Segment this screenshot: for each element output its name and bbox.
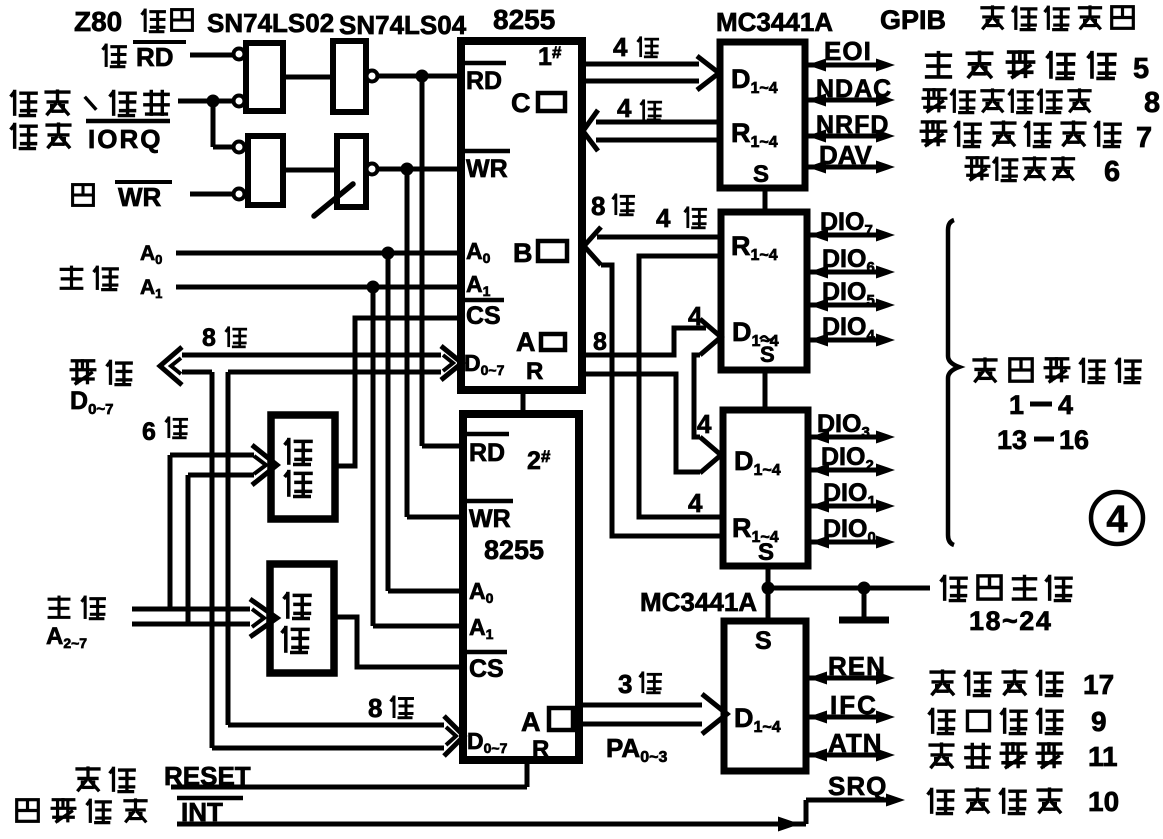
wire INT from Z80 [177,822,806,827]
note data valid 6 [966,156,990,159]
gate inverter G2 (SN74LS04) [333,41,366,112]
svg-text:18~24: 18~24 [969,606,1052,636]
net DIO2 [808,468,880,473]
wire RD down to 8255#2 [420,76,425,446]
node ground junction left [762,582,775,595]
note data not ready 7 [921,120,947,123]
svg-text:SN74LS04: SN74LS04 [339,10,467,40]
net DIO4 [807,338,880,343]
bus 8-wire into U1 port B (merge of two 4-wire) [584,227,601,265]
svg-text:RD: RD [136,42,174,72]
svg-text:8: 8 [368,693,382,723]
svg-text:RD: RD [466,67,502,95]
stray pen slash on G4 [314,184,353,216]
svg-text:9: 9 [1091,706,1107,737]
svg-text:NRFD: NRFD [816,111,889,139]
node IORQ junction [207,95,220,108]
wire IORQ down to G3 [211,101,216,147]
net DIO6 [807,270,880,275]
net DAV [805,165,880,170]
svg-text:SRQ: SRQ [828,771,887,801]
decoder block 1 [271,415,335,519]
bus branch down to U2 D0~7 [210,372,215,748]
svg-text:4: 4 [617,93,632,123]
figure number 4 [1091,492,1143,544]
net DIO5 [807,303,880,308]
svg-text:10: 10 [1088,786,1119,817]
wire A0 down to 8255#2 [386,253,391,591]
svg-text:REN: REN [828,651,886,681]
wire RESET to U2 [171,785,527,790]
transceiver X1 MC3441A [720,42,805,188]
brace bidirectional data lines [948,220,959,545]
transceiver X2 MC3441A [721,212,807,370]
wire A1 down to 8255#2 [371,287,376,626]
note end-or-identify 5 [925,53,952,57]
wire X2 S to X3 [763,370,768,410]
svg-text:1: 1 [538,43,552,71]
gate G3 input bubbles [234,142,245,153]
svg-text:B: B [513,238,533,268]
svg-text:DAV: DAV [819,140,873,170]
svg-text:11: 11 [1088,741,1118,772]
svg-text:IORQ: IORQ [88,124,162,154]
wire SRQ down to INT [804,800,809,824]
gate NOR G3 (SN74LS02) [248,136,283,205]
svg-text:3: 3 [618,669,632,699]
wire G2 out to 8255#1 RD [378,74,461,79]
bus 8-wire data D0~7 to U1 (hollow arrow both ends) [182,353,441,358]
wire G4 out to 8255#1 WR [378,167,461,172]
node RD junction [416,70,429,83]
svg-text:CS: CS [469,655,504,683]
decoder block 2 [270,564,334,673]
svg-text:4: 4 [613,32,628,62]
svg-text:17: 17 [1083,669,1114,700]
label data D0~7 [71,359,96,362]
svg-text:8: 8 [202,324,216,352]
svg-text:S: S [758,539,774,566]
svg-text:WR: WR [466,155,508,183]
wire RD to G1 [190,53,233,58]
svg-text:#: # [541,447,551,466]
svg-text:8: 8 [593,328,607,356]
net DIO1 [808,504,880,509]
net REN [806,676,880,681]
chip U1 8255 #1 [461,41,582,390]
svg-text:EOI: EOI [824,36,872,66]
wire R link U1 to U2 [521,390,526,414]
svg-text:R: R [526,358,543,385]
net DIO3 [808,435,880,440]
svg-text:16: 16 [1059,425,1089,455]
note bidirectional data lines [972,358,997,361]
svg-text:WR: WR [118,182,162,212]
label address A0 A1 [60,268,84,271]
node A0 junction [382,247,395,260]
transceiver X4 MC3441A [724,621,806,771]
svg-text:4: 4 [688,488,703,518]
svg-text:8255: 8255 [493,4,555,35]
wire A0 to 8255#1 [176,251,461,256]
wire G1 out to G2 [283,75,333,80]
svg-text:RD: RD [469,439,505,467]
svg-text:MC3441A: MC3441A [716,7,833,37]
note interface clear 9 [931,708,934,734]
svg-text:4: 4 [656,203,671,233]
transceiver X3 MC3441A [723,410,808,566]
label read /RD [105,44,108,67]
label input/output request /IORQ [13,90,16,116]
svg-text:Z80: Z80 [74,6,122,37]
svg-text:S: S [760,342,775,367]
svg-text:8: 8 [591,191,605,221]
gate G4 output bubble [367,164,378,175]
chip U2 8255 #2 [463,414,579,760]
svg-text:R: R [532,736,549,763]
svg-text:SN74LS02: SN74LS02 [207,8,334,38]
wire decoder2 out to U2 /CS [334,617,463,667]
svg-text:ATN: ATN [828,728,883,758]
svg-text:NDAC: NDAC [816,75,892,103]
svg-text:GPIB: GPIB [880,5,946,35]
svg-text:7: 7 [1136,122,1152,154]
wire WR down to 8255#2 [405,169,410,517]
bus 8-wire U1 port A splitting to X2/X3 D1~4 [583,328,706,355]
wire decoder1 out to U1 /CS [335,318,461,466]
svg-text:8255: 8255 [484,535,544,565]
net IFC [806,715,880,720]
svg-text:S: S [755,627,772,655]
svg-text:8: 8 [1144,87,1160,119]
gate NOR G1 (SN74LS02) [246,43,283,111]
svg-text:MC3441A: MC3441A [640,587,757,617]
svg-text:4: 4 [697,409,712,439]
svg-text:S: S [753,161,769,188]
net NDAC [805,98,880,103]
svg-text:IFC: IFC [830,690,878,720]
svg-text:6: 6 [142,418,156,446]
note byte interpret 11 [928,743,954,746]
node ground junction right [858,582,871,595]
bus 4-wire X1 R1~4 to U1 [596,120,720,125]
net ATN [806,753,880,758]
svg-text:#: # [552,43,562,62]
svg-text:A: A [516,327,536,357]
bus 3-wire U2 port A to X4 D1~4 [579,703,702,708]
net EOI [805,63,880,68]
wire X3 S to X4 and ground rail [766,566,771,621]
label address A2~7 [48,598,71,601]
svg-text:13: 13 [997,425,1027,455]
label reset RESET [75,767,100,770]
note service request 10 [930,788,933,814]
gate G2 output bubble [367,71,378,82]
node A1 junction [367,281,380,294]
net DIO7 [807,233,880,238]
svg-text:4: 4 [688,301,703,331]
note remote enable 17 [929,670,955,673]
wire signal ground rail [768,586,930,591]
svg-text:CS: CS [466,302,501,330]
wire G3 out to G4 [283,168,337,173]
svg-text:6: 6 [1104,156,1120,188]
note data not received 8 [923,88,947,91]
wire A1 to 8255#1 [176,285,461,290]
gate G1 input bubbles [234,49,245,60]
node WR junction [401,163,414,176]
svg-text:5: 5 [1133,53,1149,85]
net NRFD [805,134,880,139]
svg-text:A: A [521,707,541,737]
svg-text:4: 4 [1106,499,1127,541]
wire IORQ to G1/G3 [178,99,233,104]
svg-text:4: 4 [1058,390,1073,420]
bus 6-wire address A2~7 [132,607,250,612]
wire WR to G3 [190,192,233,197]
bus 4-wire U1 port C upper to X1 D1~4 [583,62,699,67]
ground symbol [862,588,867,617]
svg-text:2: 2 [527,447,541,475]
label write /WR [73,185,94,206]
net DIO0 [808,540,880,545]
gate inverter G4 (SN74LS04) [337,136,366,207]
svg-text:WR: WR [469,505,511,533]
wire X1 S to X2 [763,188,768,212]
svg-text:1: 1 [1009,390,1024,420]
svg-text:C: C [511,88,531,118]
note signal ground 18~24 [943,575,946,601]
label interrupt request /INT [17,800,39,822]
